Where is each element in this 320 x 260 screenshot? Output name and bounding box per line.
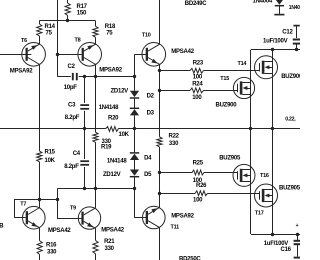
label MPSA92 T8: [99, 68, 122, 74]
svg-text:R23: R23: [193, 61, 204, 67]
svg-text:1N40: 1N40: [289, 5, 300, 11]
junction dot C3 top: [83, 75, 86, 78]
svg-text:MPSA92: MPSA92: [99, 68, 122, 74]
junction dot C4 bottom: [83, 187, 86, 190]
wire mid rail: [57, 188, 134, 190]
wire D4-D5: [134, 160, 136, 170]
capacitor C4: [80, 161, 89, 165]
svg-text:C3: C3: [68, 102, 76, 108]
junction dot T8 base tap: [56, 53, 59, 56]
svg-text:ZD12V: ZD12V: [103, 172, 121, 178]
svg-text:BD249C: BD249C: [185, 1, 207, 7]
transistor T10: [142, 43, 166, 67]
junction dot T7 rail end: [56, 198, 59, 201]
junction dot T8 collector: [94, 75, 97, 78]
label R20: [108, 116, 130, 138]
svg-text:ZD12V: ZD12V: [111, 88, 129, 94]
wire T8 collector: [95, 65, 97, 132]
svg-text:+: +: [296, 223, 299, 229]
svg-text:T9: T9: [70, 205, 76, 211]
label MPSA92 T6: [10, 69, 33, 75]
label 0.22 source resistor: [285, 117, 296, 123]
wire input column: [57, 0, 59, 77]
svg-text:T11: T11: [171, 224, 180, 230]
label BUZ900 T14: [281, 74, 303, 80]
mosfet T14 BUZ900: [255, 56, 278, 79]
resistor R22: [157, 137, 162, 147]
capacitor C16: [294, 234, 300, 258]
wire R15 to T7: [39, 162, 41, 200]
wire rail to D4: [134, 129, 136, 152]
svg-text:BUZ900: BUZ900: [216, 103, 238, 109]
svg-text:1N4004: 1N4004: [253, 0, 273, 5]
svg-text:8.2pF: 8.2pF: [65, 115, 80, 121]
wire R26 to T17 gate: [208, 193, 260, 195]
wire D3 to rail: [134, 115, 136, 129]
svg-text:T7: T7: [20, 202, 26, 208]
wire R25 left: [160, 172, 193, 174]
wire C2 right: [79, 76, 135, 78]
resistor R17: [65, 0, 70, 21]
svg-text:MPSA92: MPSA92: [171, 214, 194, 220]
label T14: [238, 61, 248, 67]
svg-text:R19: R19: [101, 144, 112, 150]
label R23: [193, 61, 204, 81]
label D2: [147, 93, 155, 99]
wire V- rail: [251, 234, 300, 236]
label plus C16: [296, 223, 299, 229]
label R21: [104, 239, 115, 252]
svg-text:R22: R22: [169, 134, 180, 140]
label R19: [101, 139, 112, 151]
resistor R26: [195, 191, 208, 196]
label BD250C: [179, 257, 201, 260]
label ZD12V D2: [111, 88, 129, 94]
wire T9 collector: [95, 189, 97, 208]
wire T7 collector rail: [39, 199, 57, 201]
label T15: [220, 76, 229, 82]
wire T10 emitter: [159, 65, 161, 137]
diode D3 1N4148: [130, 108, 139, 115]
label ZD12V D5: [103, 172, 121, 178]
wire T9 emitter: [95, 228, 97, 240]
svg-text:C16: C16: [281, 247, 292, 253]
svg-text:T16: T16: [260, 173, 269, 179]
capacitor C2: [73, 73, 77, 80]
svg-text:R15: R15: [45, 149, 56, 155]
label D4: [144, 156, 152, 162]
svg-text:D5: D5: [144, 172, 152, 178]
svg-text:T14: T14: [238, 61, 248, 67]
wire R24 left: [160, 90, 191, 92]
wire T11 emitter: [159, 228, 161, 260]
svg-text:75: 75: [106, 30, 113, 36]
wire T7 collector lead: [39, 200, 41, 208]
svg-text:BUZ900: BUZ900: [281, 74, 300, 80]
transistor T9: [78, 207, 100, 229]
svg-text:8.2pF: 8.2pF: [64, 164, 79, 170]
wire D5 to rail: [134, 177, 136, 189]
label C16: [281, 247, 292, 253]
label C12: [282, 30, 293, 36]
wire output rail right: [119, 128, 301, 130]
wire D2-D3: [134, 98, 136, 108]
label D3: [147, 111, 155, 117]
svg-text:T17: T17: [255, 211, 264, 217]
svg-text:1N4148: 1N4148: [99, 105, 119, 111]
label C4: [64, 151, 81, 170]
wire T10 collector: [159, 0, 161, 44]
svg-text:75: 75: [46, 31, 53, 37]
svg-text:1uF/100V: 1uF/100V: [263, 38, 288, 44]
junction dot mosfet source left: [249, 127, 252, 130]
resistor R14: [37, 21, 42, 44]
junction dot diode chain bottom: [133, 187, 136, 190]
svg-text:330: 330: [47, 249, 57, 255]
diode D5 ZD12V: [130, 170, 139, 177]
wire diode chain to T11 base: [135, 189, 147, 218]
svg-text:BUZ905: BUZ905: [279, 185, 300, 191]
label C16 value: [264, 241, 289, 247]
label BUZ905 T16: [219, 155, 241, 161]
svg-text:C4: C4: [73, 151, 81, 157]
label R16: [46, 242, 57, 255]
resistor R23: [190, 68, 204, 73]
label R25: [193, 160, 204, 184]
svg-text:R14: R14: [45, 24, 56, 30]
label T7: [20, 202, 26, 208]
wire C4 top lead: [84, 129, 86, 159]
svg-text:R18: R18: [105, 24, 116, 30]
wire mosfet column left: [250, 50, 252, 234]
junction dot C16 rail: [296, 233, 299, 236]
wire R25 to T16 gate: [204, 172, 237, 174]
label R14: [45, 24, 56, 37]
label MPSA42 T9: [101, 228, 124, 234]
wire R23 to T14 gate: [204, 70, 260, 72]
junction dot R17/top rail: [66, 19, 69, 22]
wire T6 collector: [39, 65, 41, 151]
resistor R20: [106, 127, 119, 132]
mosfet T17 BUZ905: [255, 184, 278, 207]
resistor R21: [93, 240, 98, 253]
svg-text:R26: R26: [196, 183, 207, 189]
label BD249C: [185, 1, 207, 7]
svg-text:T8: T8: [75, 38, 81, 44]
wire T6 base: [0, 54, 31, 56]
label R15: [45, 149, 56, 164]
svg-text:D2: D2: [147, 93, 155, 99]
junction dot mosfet source right: [271, 127, 274, 130]
label 1N40 cut: [289, 5, 300, 11]
wire C4 bottom lead: [84, 167, 86, 189]
junction dot R23: [158, 69, 161, 72]
wire C2 left: [57, 76, 71, 78]
wire T8 base: [57, 54, 81, 56]
svg-text:BUZ905: BUZ905: [219, 155, 241, 161]
wire V+ rail: [251, 49, 300, 51]
wire R26 left: [160, 193, 196, 195]
resistor R25: [192, 170, 204, 175]
wire top rail: [39, 20, 95, 22]
svg-text:MPSA42: MPSA42: [48, 228, 71, 234]
label BUZ905 T17: [279, 185, 301, 191]
diode D4 1N4148: [130, 153, 139, 160]
transistor T7: [23, 206, 46, 229]
wire R21 to edge: [95, 254, 97, 260]
svg-text:C12: C12: [282, 30, 293, 36]
wire R22 to T11: [159, 147, 161, 207]
svg-text:100: 100: [193, 75, 203, 81]
svg-text:100: 100: [192, 95, 202, 101]
svg-text:330: 330: [169, 141, 179, 147]
svg-text:R25: R25: [193, 160, 204, 166]
label 1N4148 D3: [99, 105, 119, 111]
svg-text:100: 100: [193, 198, 203, 204]
capacitor C3: [80, 105, 89, 109]
label T16: [260, 173, 269, 179]
label R17: [77, 4, 88, 17]
label R26: [193, 183, 207, 204]
wire T7 feedback loop: [15, 200, 40, 218]
svg-text:R20: R20: [108, 116, 119, 122]
label R22: [169, 134, 180, 147]
wire mosfet column right: [272, 50, 274, 234]
svg-text:R16: R16: [46, 242, 57, 248]
wire C3 bottom lead: [84, 111, 86, 129]
wire output rail left: [0, 128, 106, 130]
junction dot R19 bottom: [94, 187, 97, 190]
wire T9 base path: [58, 189, 82, 219]
label R24: [192, 82, 203, 102]
junction dot R24: [158, 89, 161, 92]
label T17: [255, 211, 264, 217]
svg-text:1N4148: 1N4148: [107, 158, 127, 164]
wire T7 emitter: [39, 228, 41, 241]
resistor R19: [93, 132, 98, 142]
svg-text:MPSA42: MPSA42: [171, 49, 194, 55]
junction dot diode chain top: [133, 75, 136, 78]
label C12 value: [263, 38, 288, 44]
wire T10 base: [135, 54, 148, 56]
svg-text:10K: 10K: [119, 132, 130, 138]
svg-text:T15: T15: [220, 76, 229, 82]
label D5: [144, 172, 152, 178]
label T11: [171, 224, 180, 230]
resistor R24: [190, 88, 204, 93]
resistor R15: [37, 151, 42, 162]
mosfet T15 BUZ900: [233, 77, 254, 98]
label R18: [105, 24, 116, 36]
svg-text:R24: R24: [192, 82, 203, 88]
label MPSA92 T11: [171, 214, 194, 220]
wire R19 to rail: [95, 142, 97, 189]
svg-text:0.22,: 0.22,: [285, 117, 296, 123]
svg-text:330: 330: [105, 246, 115, 252]
svg-text:R21: R21: [104, 239, 115, 245]
label T6: [21, 38, 27, 44]
wire R24 to T15 gate: [204, 90, 238, 92]
transistor T8: [78, 43, 102, 67]
svg-text:D3: D3: [147, 111, 155, 117]
junction dot C12 rail: [295, 48, 298, 51]
label C3: [65, 102, 80, 121]
label B input cut: [0, 223, 4, 230]
wire R16 to edge: [39, 254, 41, 260]
svg-text:150: 150: [77, 11, 87, 17]
junction dot C3/C4 rail: [83, 127, 86, 130]
transistor T11: [143, 206, 166, 229]
svg-text:T6: T6: [21, 38, 27, 44]
label 1N4004: [253, 0, 273, 5]
junction dot T7 collector: [38, 198, 41, 201]
label C2: [64, 64, 78, 91]
resistor R16: [37, 241, 42, 255]
capacitor C12: [293, 26, 300, 50]
svg-text:D4: D4: [144, 156, 152, 162]
junction dot T17 drain: [271, 233, 274, 236]
resistor R18: [93, 21, 98, 44]
label T10: [142, 32, 151, 38]
transistor T6: [22, 43, 46, 67]
diode D2 ZD12V: [130, 91, 139, 98]
label T8: [75, 38, 81, 44]
junction dot R25: [158, 171, 161, 174]
wire C3 top lead: [84, 77, 86, 103]
diode 1N4004: [274, 0, 284, 15]
svg-text:MPSA42: MPSA42: [101, 228, 124, 234]
junction dot R26: [158, 192, 161, 195]
svg-text:C2: C2: [68, 64, 76, 70]
svg-text:R17: R17: [77, 4, 88, 10]
label 1N4148 D4: [107, 158, 127, 164]
mosfet T16 BUZ905: [233, 164, 255, 186]
label T9: [70, 205, 76, 211]
label MPSA42 T7: [48, 228, 71, 234]
svg-text:10K: 10K: [45, 158, 56, 164]
label MPSA42 T10: [171, 49, 194, 55]
svg-text:10pF: 10pF: [64, 85, 78, 91]
junction dot T14 drain: [271, 48, 274, 51]
wire R23 left: [160, 70, 191, 72]
svg-text:MPSA92: MPSA92: [10, 69, 33, 75]
label BUZ900 T15: [216, 103, 238, 109]
junction dot R20/diodes: [133, 127, 136, 130]
wire diode chain upper: [134, 54, 136, 91]
svg-text:T10: T10: [142, 32, 151, 38]
